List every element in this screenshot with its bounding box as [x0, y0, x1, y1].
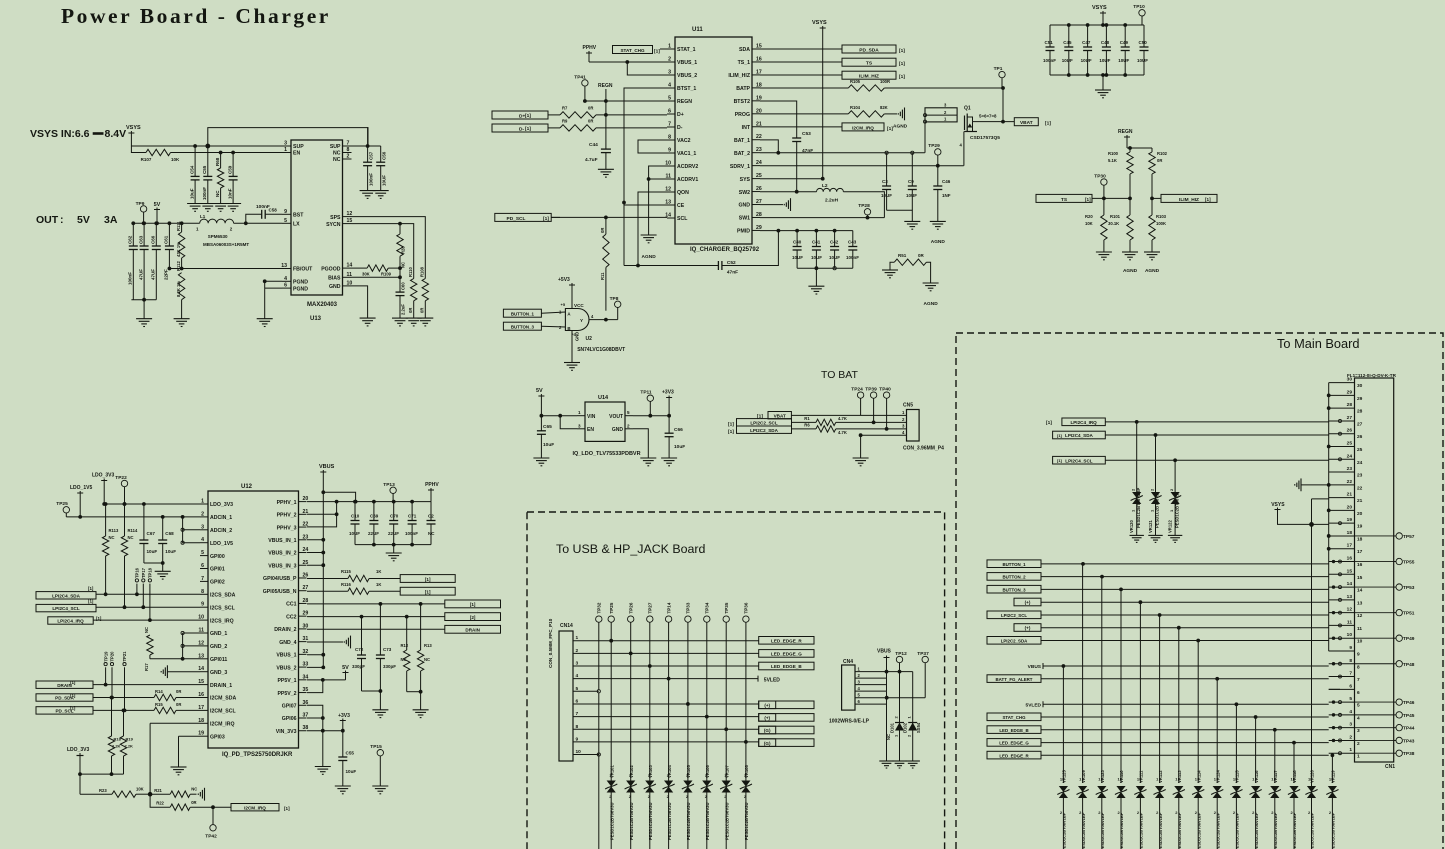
wire BTST_1 pin4 to C52 path [624, 88, 667, 266]
dashed border To Main Board [956, 333, 1443, 849]
svg-text:VIN_3V3: VIN_3V3 [276, 729, 297, 735]
svg-text:GPI05/USB_N: GPI05/USB_N [263, 589, 297, 595]
svg-text:CN5: CN5 [903, 403, 913, 409]
svg-text:NC: NC [144, 627, 149, 633]
svg-text:C60: C60 [401, 282, 406, 290]
svg-text:PD_SCL: PD_SCL [507, 216, 526, 222]
tvs diode VR122 [1174, 460, 1176, 535]
svg-text:LPI2C2_SCL: LPI2C2_SCL [750, 420, 778, 425]
svg-text:[1]: [1] [654, 49, 660, 55]
svg-text:REGN: REGN [677, 99, 692, 105]
svg-text:[1]: [1] [425, 590, 431, 595]
svg-text:100nF: 100nF [369, 173, 374, 186]
wire pin19 VSYS [1312, 523, 1329, 525]
svg-text:LDO_1V5: LDO_1V5 [210, 541, 233, 547]
wire PMID pin29 [760, 230, 853, 232]
svg-text:28: 28 [1347, 402, 1353, 408]
tvs diode VR123 PESD1C2BT06V1BP [1101, 577, 1103, 783]
svg-text:TP21: TP21 [122, 651, 127, 662]
svg-text:VSYS: VSYS [1092, 5, 1107, 11]
netlabel CC1 box [445, 600, 501, 608]
svg-text:10K: 10K [171, 157, 180, 162]
svg-text:BIAS: BIAS [328, 276, 341, 282]
resistor R68 NC [220, 153, 222, 169]
wire VSYS drop to VR126 [1311, 524, 1313, 786]
svg-text:R20: R20 [1085, 214, 1093, 219]
svg-text:LED_EDGE_G: LED_EDGE_G [771, 652, 802, 657]
wire ACDRV tie to AGND [649, 166, 667, 235]
svg-text:15: 15 [1347, 568, 1353, 574]
wire CN4 pin1 VBUS [855, 671, 913, 673]
svg-text:MAX20403: MAX20403 [307, 302, 338, 308]
svg-text:GPI011: GPI011 [210, 657, 227, 663]
testpoints TP57 TP55 TP53 TP51 TP49 TP48 TP46 TP45 TP44 TP43 TP38 on FL1 [1394, 535, 1396, 537]
capacitor C63 47UF [143, 223, 145, 246]
wire CC1 pin28 [307, 603, 445, 605]
svg-text:TP13: TP13 [383, 482, 395, 488]
wire PGND pins [265, 280, 282, 282]
tvs diode VR107 PESD1C2BT06V3U [722, 781, 731, 787]
resistor R109 30K [367, 265, 388, 271]
svg-text:C55: C55 [346, 751, 355, 756]
svg-text:[1]: [1] [525, 113, 531, 119]
svg-text:PESD1C2BT06V3U: PESD1C2BT06V3U [629, 803, 634, 840]
svg-text:10UF: 10UF [1118, 58, 1129, 63]
svg-text:+3V3: +3V3 [338, 713, 350, 719]
svg-text:C55: C55 [202, 165, 207, 174]
wire PD_SCL short [551, 216, 560, 218]
svg-text:BTST_1: BTST_1 [677, 86, 696, 92]
netlabel BUTTON_3 main [987, 585, 1041, 593]
svg-text:14: 14 [1347, 581, 1353, 587]
netlabel PD_SCL u12 [36, 707, 93, 714]
svg-text:27: 27 [1357, 421, 1363, 427]
svg-text:10UF: 10UF [811, 255, 822, 260]
wire (+) to FL1 pin13 [1041, 601, 1329, 603]
svg-text:10uF: 10uF [543, 442, 554, 448]
svg-text:R12: R12 [401, 643, 409, 648]
svg-text:SUP: SUP [293, 144, 304, 150]
svg-text:PPHV: PPHV [583, 45, 597, 51]
svg-text:ACDRV2: ACDRV2 [677, 164, 698, 170]
resistor R12 NC [406, 617, 408, 650]
svg-text:GND_3: GND_3 [210, 670, 227, 676]
wire SDRV pin24 [760, 165, 964, 167]
svg-text:PESD1C2BT06V3U: PESD1C2BT06V3U [744, 803, 749, 840]
svg-text:1: 1 [1357, 754, 1360, 760]
svg-text:CSD17573Q5: CSD17573Q5 [970, 135, 1000, 141]
svg-text:[1]: [1] [70, 706, 76, 711]
svg-text:VR110: VR110 [1119, 770, 1124, 783]
svg-text:U12: U12 [241, 484, 253, 490]
svg-text:TP16: TP16 [135, 567, 140, 578]
wire LPI2C2_SDA to FL1 pin10 [1041, 640, 1329, 642]
svg-text:30K: 30K [362, 272, 370, 277]
svg-text:D+: D+ [677, 112, 684, 118]
wire EN rail [131, 146, 146, 153]
wire capbank top rail [1050, 24, 1144, 26]
resistor R102 0R [1151, 148, 1153, 152]
svg-text:7: 7 [1357, 677, 1360, 683]
svg-text:ILIM_HIZ: ILIM_HIZ [1179, 197, 1199, 203]
svg-text:PPHV_2: PPHV_2 [277, 513, 297, 519]
svg-text:1: 1 [1349, 747, 1352, 753]
capacitor C57 100nF [367, 146, 369, 162]
svg-text:CC1: CC1 [286, 602, 296, 608]
wire VIN_3V3 pin38 [307, 730, 343, 732]
svg-text:C58: C58 [269, 208, 278, 213]
svg-text:3A: 3A [104, 214, 118, 226]
svg-text:Q1: Q1 [964, 106, 971, 112]
svg-text:U2: U2 [586, 336, 593, 342]
svg-text:R21: R21 [154, 788, 162, 793]
svg-text:C49: C49 [1120, 40, 1129, 45]
resistor R104 82K [760, 113, 848, 115]
svg-text:[1]: [1] [899, 61, 905, 67]
svg-text:C41: C41 [812, 240, 821, 245]
ic U14 IQ_LDO_TLV75533PDBVR body [585, 402, 625, 441]
capacitors C51 C45 C47 C48 C49 C50 [1049, 25, 1051, 47]
svg-text:R109: R109 [381, 272, 392, 277]
svg-text:VBUS_IN_2: VBUS_IN_2 [268, 551, 296, 557]
svg-text:4.7uF: 4.7uF [585, 157, 598, 163]
tvs diode VR115 PESD1C2BT06V1BP [1235, 704, 1237, 783]
wire CN14 pin10 [573, 754, 599, 756]
svg-text:TP43: TP43 [1403, 738, 1415, 744]
svg-text:0R: 0R [176, 702, 181, 707]
svg-text:TO BAT: TO BAT [821, 369, 859, 381]
junction dots TP pins [1332, 560, 1335, 563]
svg-text:C52: C52 [727, 260, 736, 266]
ground TP15 [372, 785, 388, 787]
svg-text:PESD1C2BT06V1BP: PESD1C2BT06V1BP [1139, 812, 1144, 849]
svg-text:C61: C61 [164, 235, 169, 244]
svg-text:DRAIN: DRAIN [465, 628, 480, 633]
svg-text:TP8: TP8 [610, 296, 619, 302]
svg-text:ILIM_HIZ: ILIM_HIZ [859, 74, 879, 80]
svg-text:22: 22 [1347, 479, 1353, 485]
wire VBUS_1 2 pins tie [321, 653, 325, 657]
svg-text:QON: QON [677, 190, 689, 196]
svg-text:VIN: VIN [587, 414, 596, 420]
svg-text:D-: D- [677, 125, 683, 131]
svg-text:VR113: VR113 [1177, 770, 1182, 783]
svg-text:TP34: TP34 [705, 602, 710, 613]
wire PP5V tie [307, 679, 346, 681]
svg-text:R68: R68 [215, 157, 220, 166]
netlabel STAT_CHG main [987, 713, 1041, 721]
svg-text:100nF: 100nF [202, 187, 207, 200]
testpoint TP10 [1139, 10, 1145, 16]
wire LX to pin [234, 222, 282, 224]
ground C44 [598, 168, 614, 170]
svg-text:TP45: TP45 [1403, 713, 1415, 719]
svg-text:TP1: TP1 [994, 66, 1003, 72]
testpoint TP24 [857, 392, 863, 398]
svg-text:Y: Y [580, 318, 583, 323]
tvs diode VR117 PESD1C2BT06V1BP [1274, 730, 1276, 783]
svg-text:R105: R105 [850, 79, 861, 84]
tvs diode VR124 PESD1C2BT06V1BP [1216, 679, 1218, 783]
svg-text:C10: C10 [351, 514, 360, 519]
svg-text:L1: L1 [200, 214, 206, 219]
svg-text:C46: C46 [942, 179, 951, 184]
wire CN5 pin4 gnd [861, 435, 907, 458]
wire C72 C73 gnd [362, 690, 381, 692]
svg-text:NC: NC [215, 190, 220, 197]
ground C55 [335, 785, 351, 787]
resistor R11 0R [605, 217, 607, 234]
svg-text:PESD1C2BT06V1BP: PESD1C2BT06V1BP [1177, 812, 1182, 849]
inductor L2 2.2uH [816, 188, 843, 191]
svg-text:TP12: TP12 [895, 651, 907, 657]
svg-text:D101: D101 [890, 722, 895, 733]
netlabel BUTTON_1 [503, 309, 541, 317]
svg-text:4: 4 [1357, 715, 1360, 721]
wire CC2 pin29 [307, 616, 445, 618]
netlabel LED_EDGE_B usb [759, 662, 814, 670]
svg-text:VR122: VR122 [1167, 520, 1172, 533]
svg-text:C62: C62 [128, 235, 133, 244]
svg-text:GPI07: GPI07 [282, 703, 297, 709]
svg-text:VBUS: VBUS [877, 649, 892, 655]
svg-text:17: 17 [1347, 543, 1353, 549]
wire U14 VIN [541, 415, 577, 417]
svg-text:10uF: 10uF [674, 444, 685, 450]
svg-text:PESD1C2BT06V1BP: PESD1C2BT06V1BP [1158, 812, 1163, 849]
svg-text:C40: C40 [793, 240, 802, 245]
svg-text:23: 23 [1357, 473, 1363, 479]
capacitor C61 22PF [168, 223, 170, 246]
svg-text:19: 19 [1357, 524, 1363, 530]
svg-text:10uF: 10uF [165, 549, 176, 554]
svg-text:R11: R11 [600, 272, 605, 280]
wire VAC2 VAC1 tie [638, 140, 667, 153]
svg-text:I2CM_IRQ: I2CM_IRQ [210, 722, 235, 728]
resistor R112 8.2K [178, 273, 184, 300]
svg-text:ACDRV1: ACDRV1 [677, 177, 698, 183]
svg-text:IQ_LDO_TLV75533PDBVR: IQ_LDO_TLV75533PDBVR [573, 451, 641, 457]
wire Q1 source to BAT_2 [924, 122, 926, 153]
svg-text:LPI2C4_SDA: LPI2C4_SDA [1065, 433, 1094, 438]
resistor R116 1K [307, 590, 348, 592]
capacitor C55 10uF [342, 731, 344, 757]
svg-text:15: 15 [1357, 575, 1363, 581]
svg-text:9: 9 [1349, 645, 1352, 651]
wire I2CM_IRQ pin18 [150, 722, 200, 724]
wire FB line [169, 268, 282, 270]
svg-text:100nF: 100nF [1043, 58, 1056, 63]
testpoint TP40 [883, 392, 889, 398]
wire LPI2C2_SCL to FL1 pin12 [1041, 614, 1329, 616]
svg-text:[1]: [1] [1057, 433, 1063, 438]
svg-text:100nF: 100nF [846, 255, 859, 260]
svg-text:SYS: SYS [740, 177, 751, 183]
svg-text:PESD1C2BT06V1BP: PESD1C2BT06V1BP [1310, 812, 1315, 849]
netlabel D+ [1] [492, 111, 548, 119]
svg-text:REGN: REGN [1118, 129, 1133, 135]
svg-text:C53: C53 [802, 131, 811, 137]
svg-text:0R: 0R [918, 253, 925, 258]
svg-text:PESD1C2BT06V1BP: PESD1C2BT06V1BP [1215, 812, 1220, 849]
connector CN4 1002WRS [842, 665, 855, 710]
wire LX output rail [131, 222, 199, 224]
svg-text:0R: 0R [176, 689, 181, 694]
netlabel DRAIN box [445, 625, 501, 633]
svg-text:R51: R51 [898, 253, 907, 258]
wire BUTTON_1 to FL1 pin16 [1041, 563, 1329, 565]
svg-text:2: 2 [1357, 741, 1360, 747]
transistor Q1 CSD17573Q5 symbol [964, 116, 966, 131]
svg-text:TP15: TP15 [370, 744, 382, 750]
capacitor C56 10UF [380, 146, 382, 162]
svg-text:10uF: 10uF [147, 549, 158, 554]
tvs diode VR110 PESD1C2BT06V1BP [1120, 589, 1122, 783]
resistor R9 0R [548, 127, 560, 129]
svg-text:LED_EDGE_R: LED_EDGE_R [999, 753, 1029, 758]
resistor R20 10K [1103, 198, 1105, 215]
svg-text:17: 17 [1357, 549, 1363, 555]
testpoint TP8 [615, 301, 621, 307]
ground C66 [661, 457, 677, 459]
svg-text:10nF: 10nF [227, 188, 232, 199]
wire top loop SUP [208, 128, 368, 146]
svg-text:STAT_CHG: STAT_CHG [620, 48, 645, 53]
svg-text:0R: 0R [600, 228, 605, 233]
netlabel LPI2C4_IRQ u12 [48, 617, 93, 624]
svg-text:R7: R7 [562, 106, 568, 111]
wire SYS pin25 [760, 178, 823, 180]
testpoint TP41 [582, 80, 588, 86]
svg-text:NC: NC [109, 535, 115, 540]
capacitor C72 330pF [361, 617, 363, 655]
svg-text:BAT_1: BAT_1 [734, 138, 750, 144]
svg-text:TP32: TP32 [597, 602, 602, 613]
wire FL1 pin6 stub [1329, 688, 1340, 690]
svg-text:LED_EDGE_G: LED_EDGE_G [999, 741, 1029, 746]
svg-text:I2CM_IRQ: I2CM_IRQ [852, 125, 874, 130]
svg-text:18: 18 [1347, 530, 1353, 536]
svg-text:10UF: 10UF [349, 531, 360, 536]
svg-text:TP28: TP28 [858, 203, 870, 209]
svg-text:NC: NC [333, 151, 341, 157]
svg-text:PESD1C2BT06V1: PESD1C2BT06V1 [1174, 493, 1179, 528]
tvs diode VR120 [1136, 422, 1138, 536]
capacitor C53 47nF [792, 137, 801, 139]
svg-text:MBSA06003S+1R5MT: MBSA06003S+1R5MT [203, 242, 249, 247]
svg-text:C44: C44 [589, 142, 598, 148]
svg-text:PESD1C2BT06V1BP: PESD1C2BT06V1BP [1292, 812, 1297, 849]
svg-text:TP22: TP22 [115, 475, 127, 481]
netlabel BUTTON_1 main [987, 560, 1041, 568]
tvs diode VR106 PESD1C2BT06V3U [702, 781, 711, 787]
netlabel LPI2C2_SCL main [987, 611, 1041, 619]
svg-text:SN74LVC1G08DBVT: SN74LVC1G08DBVT [577, 347, 625, 353]
capacitor C9 10UF [911, 153, 913, 186]
svg-text:TP40: TP40 [879, 387, 891, 393]
ic U11 IQ_CHARGER_BQ25792 body [675, 37, 752, 244]
svg-text:1002WRS-0/E-LP: 1002WRS-0/E-LP [829, 719, 870, 725]
svg-text:26: 26 [1357, 434, 1363, 440]
svg-text:TP55: TP55 [1403, 560, 1415, 566]
svg-text:LPI2C4_SCL: LPI2C4_SCL [52, 606, 80, 611]
wire SUP pin7 to caps [352, 145, 381, 147]
ground AGND R104 [884, 113, 897, 115]
svg-text:VBAT: VBAT [774, 413, 786, 418]
svg-text:[1]: [1] [728, 429, 734, 435]
ground R112 [174, 318, 190, 320]
svg-text:AGND: AGND [1123, 268, 1138, 274]
ground AGND U11 [641, 234, 657, 236]
svg-text:VR109: VR109 [1081, 770, 1086, 783]
resistor R110 0R [411, 279, 417, 301]
svg-text:PPHV: PPHV [425, 482, 439, 488]
svg-text:SUP: SUP [330, 144, 341, 150]
resistor R113 NC [105, 504, 107, 536]
svg-text:TP36: TP36 [744, 602, 749, 613]
svg-text:C51: C51 [1045, 40, 1054, 45]
svg-text:SDRV_1: SDRV_1 [730, 164, 750, 170]
svg-text:VSYS: VSYS [812, 20, 827, 26]
svg-text:SPM6530: SPM6530 [208, 234, 228, 239]
svg-text:5V: 5V [77, 214, 90, 226]
ground C3 C9 [904, 220, 920, 222]
svg-text:PESD1C2BT06V2BP: PESD1C2BT06V2BP [1136, 488, 1141, 528]
testpoint TP28 [864, 209, 870, 215]
netlabel BUTTON_3 [503, 322, 541, 330]
testpoint TP37 [922, 656, 928, 662]
wire CN4 pins 2 3 4 tie [855, 677, 887, 679]
ground GPI03 [171, 766, 187, 768]
wire VBUS_1 pin2 [589, 61, 667, 63]
svg-text:20: 20 [1347, 504, 1353, 510]
svg-text:24: 24 [1347, 453, 1353, 459]
wire LPI2C4_SCL to pin24 [1105, 459, 1328, 461]
svg-text:GPI04/USB_P: GPI04/USB_P [263, 576, 297, 582]
svg-text:TS: TS [1061, 197, 1068, 203]
svg-text:R114: R114 [128, 528, 138, 533]
svg-text:TP49: TP49 [1403, 636, 1415, 642]
testpoint TP22 [121, 480, 127, 486]
dashed border To USB & HP_JACK Board [527, 512, 945, 849]
wire R18 R19 to LDO_3V3 [80, 773, 124, 775]
wire BATT_FG_ALERT to FL1 pin7 [1041, 678, 1329, 680]
svg-text:PESD1C2BT06V1BP: PESD1C2BT06V1BP [1100, 812, 1105, 849]
netlabel jack G2 [759, 739, 814, 747]
netlabel LPI2C4_SDA main [1053, 431, 1106, 439]
wire QON pin12 [638, 192, 667, 266]
svg-text:100R: 100R [880, 79, 890, 84]
capacitor C60 2.2uF [396, 291, 405, 293]
svg-text:DRAIN_1: DRAIN_1 [210, 683, 232, 689]
wire C3 C9 gnd [887, 210, 913, 221]
svg-text:PP5V_2: PP5V_2 [277, 691, 296, 697]
svg-text:FL1=112-0I-Q-DV-K-TR: FL1=112-0I-Q-DV-K-TR [1347, 373, 1397, 378]
testpoint TP39 [870, 392, 876, 398]
svg-text:TP51: TP51 [1403, 611, 1415, 617]
netlabel ILIM_HIZ [760, 74, 842, 76]
svg-text:NC: NC [128, 535, 134, 540]
testpoint TP30 [1101, 179, 1107, 185]
svg-text:VBAT: VBAT [1020, 120, 1033, 126]
svg-text:CON_3.96MM_P4: CON_3.96MM_P4 [903, 446, 944, 452]
svg-text:8: 8 [1357, 664, 1360, 670]
netlabel LPI2C2_SDA main [987, 637, 1041, 645]
svg-text:VBUS_IN_3: VBUS_IN_3 [268, 563, 296, 569]
wire pin38 tie gnd [322, 731, 324, 767]
svg-text:TP46: TP46 [1403, 700, 1415, 706]
svg-text:[1]: [1] [525, 126, 531, 132]
